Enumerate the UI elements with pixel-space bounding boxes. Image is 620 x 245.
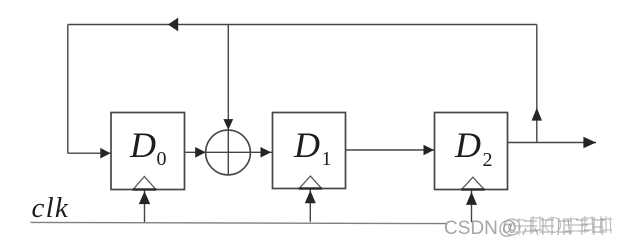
svg-text:D: D: [454, 125, 481, 165]
svg-text:D: D: [293, 125, 320, 165]
svg-text:2: 2: [483, 149, 493, 171]
svg-text:D: D: [129, 125, 156, 165]
svg-text:0: 0: [157, 148, 167, 170]
svg-text:1: 1: [322, 148, 332, 170]
svg-text:clk: clk: [32, 192, 69, 224]
